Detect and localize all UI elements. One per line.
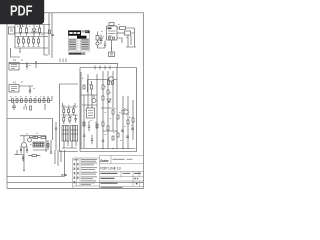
resistor R1 (20, 25, 22, 36)
junction dotU (111, 47, 112, 48)
wire verticals lower (55, 150, 61, 166)
svg-text:PJB: PJB (62, 173, 67, 177)
transistor Q6 (96, 42, 99, 48)
junctions (102, 148, 123, 149)
resistor Ri2 (112, 81, 114, 85)
resistor R29 (112, 110, 114, 114)
small box above (109, 23, 114, 27)
wire long horizontal net (9, 63, 118, 66)
capacitor C11b (131, 128, 134, 129)
connector J3 (9, 85, 19, 93)
resistor Rq1 (47, 144, 49, 148)
resistor R33b (102, 122, 104, 126)
capacitor C12 (104, 41, 106, 49)
resistor R8 (38, 37, 40, 46)
notes header text (74, 159, 79, 160)
label U5 (108, 28, 112, 30)
IC U1 (87, 108, 95, 118)
row5 text (101, 183, 118, 184)
capacitor C8 (22, 154, 24, 161)
wire bottom bus (8, 100, 52, 102)
resistor R33 (132, 118, 134, 122)
table footer bar (68, 52, 85, 55)
resistor R23 (68, 107, 70, 115)
table rows (68, 39, 89, 51)
wire T outputs (62, 141, 77, 148)
capacitor C11 (126, 136, 129, 137)
capacitor C9d (91, 135, 93, 144)
value labels scatter (10, 24, 133, 149)
transistor Q5 (124, 110, 128, 114)
resistor R22 (63, 107, 65, 115)
wire stub2 (44, 104, 46, 110)
resistor R25 (91, 81, 93, 95)
notes text block (81, 159, 97, 185)
row4 text (101, 178, 115, 179)
resistor R26 (102, 85, 104, 89)
resistor R18 (30, 106, 32, 110)
resistor R4 (18, 37, 20, 46)
logo right text (113, 159, 125, 160)
wire G1 grid (62, 103, 78, 115)
diode D3 (100, 35, 103, 45)
resistor R11 (21, 99, 23, 103)
transformer T1 (62, 126, 69, 142)
diode D1 (31, 25, 37, 37)
resistor R33e (117, 133, 119, 137)
capacitor Cb1 on bus (51, 35, 53, 36)
capacitor C9c (83, 135, 85, 136)
resistor R16 (43, 99, 45, 103)
capacitor C7 (26, 146, 28, 153)
resistor R25b (83, 122, 85, 126)
connector J1 (9, 27, 15, 34)
wire stub (35, 62, 37, 68)
connector J2 (9, 63, 19, 71)
svg-text:PDF: PDF (10, 3, 33, 19)
wire bus stubs (60, 59, 66, 63)
node A cluster top-left (15, 25, 50, 49)
junction dotA (19, 51, 20, 52)
junction dot (35, 61, 36, 62)
transistor Q2 (28, 136, 32, 142)
ground symbols row (18, 46, 40, 48)
table header black (68, 31, 81, 36)
ground G1 (109, 52, 115, 57)
wire q bus (20, 136, 46, 139)
drawing frame border (7, 13, 144, 189)
resistor Ri1 (108, 81, 110, 85)
left lower block box (7, 119, 53, 141)
resistor R33d (112, 136, 114, 140)
resistor R17 (48, 99, 50, 103)
resistor R23b (72, 107, 74, 115)
resistor R7 (33, 37, 35, 46)
resistor R13 (30, 99, 32, 103)
parts table (68, 31, 89, 56)
resistor R33c (107, 126, 109, 130)
transistor Q1 (14, 136, 27, 171)
capacitor C1 (17, 20, 27, 27)
wire L below cluster A (11, 48, 21, 57)
resistor R28 (102, 96, 104, 100)
row3 text (101, 173, 118, 174)
transformer T2 (71, 126, 78, 142)
junction dotQ (23, 170, 24, 171)
resistor R32 (127, 120, 129, 124)
capacitor C4 (12, 102, 16, 110)
IC X1 hatched (33, 142, 38, 147)
wire risers (44, 96, 52, 101)
big center box G2 (80, 68, 137, 152)
resistor R20 (41, 137, 45, 139)
resistor R23c (63, 115, 65, 123)
resistor R23d (69, 115, 71, 123)
resistor R9 (12, 99, 14, 103)
connector J4 (96, 32, 99, 42)
transistor Q3 (92, 95, 96, 103)
bottom row text (101, 186, 123, 189)
box bottom (7, 150, 65, 177)
svg-text:K2: K2 (13, 81, 17, 85)
capacitor C9 (74, 115, 76, 123)
IC U5 box (107, 26, 118, 40)
diode D2 (107, 99, 111, 102)
PDF badge (0, 0, 44, 24)
resistor R19 (30, 137, 40, 139)
svg-text:Doctor: Doctor (100, 158, 108, 163)
resistor R12 (25, 99, 27, 103)
resistor R3 (39, 25, 41, 36)
wire G1 feed (55, 122, 57, 150)
capacitor Cf1 (55, 128, 57, 129)
resistor R25c (96, 124, 98, 128)
wire bottom drop (98, 40, 112, 52)
resistor R31 (122, 110, 124, 114)
capacitor C2 (26, 62, 28, 69)
big center box G1 (60, 84, 79, 152)
wire ticks on G2 top (95, 66, 110, 70)
transistor Q4 (109, 77, 113, 81)
capacitor C9b (88, 121, 90, 131)
wire lower links (33, 136, 51, 152)
small box right (117, 31, 131, 35)
resistor Rb1 on bus (49, 30, 51, 34)
wire right drop (44, 25, 48, 56)
resistor R14 (34, 99, 36, 103)
resistor R34 (117, 27, 135, 30)
title block (73, 155, 144, 188)
wire stub left (16, 150, 18, 155)
capacitor C6 (20, 146, 22, 153)
capacitor C3 (29, 90, 31, 91)
wire net C (19, 86, 33, 94)
resistor R24 (83, 85, 85, 89)
resistor R21 (28, 155, 40, 157)
wire right net (117, 28, 136, 47)
resistor R6 (28, 37, 30, 46)
capacitor Cq1 (50, 152, 52, 153)
wire G2 mid verticals (101, 67, 133, 150)
svg-text:POP LINE 13: POP LINE 13 (100, 166, 120, 170)
resistor R5 (23, 37, 25, 46)
resistor R10 (16, 99, 18, 103)
revision markers column (74, 163, 79, 183)
inner box top (88, 80, 118, 93)
wire G2 left nets (81, 72, 97, 148)
IC X2 hatched (39, 142, 44, 147)
resistor R30 (117, 115, 119, 119)
svg-text:K1: K1 (13, 58, 17, 62)
wire mid bus (15, 36, 48, 38)
resistor R15 (39, 99, 41, 103)
capacitor C5 (24, 104, 27, 110)
wire top bus verticals (49, 13, 52, 58)
capacitor C11c (102, 140, 104, 141)
resistor R27 (107, 90, 109, 94)
capacitor C10 (121, 130, 124, 131)
wire bottom bus G2 (80, 148, 135, 150)
resistor R2 (26, 25, 28, 36)
